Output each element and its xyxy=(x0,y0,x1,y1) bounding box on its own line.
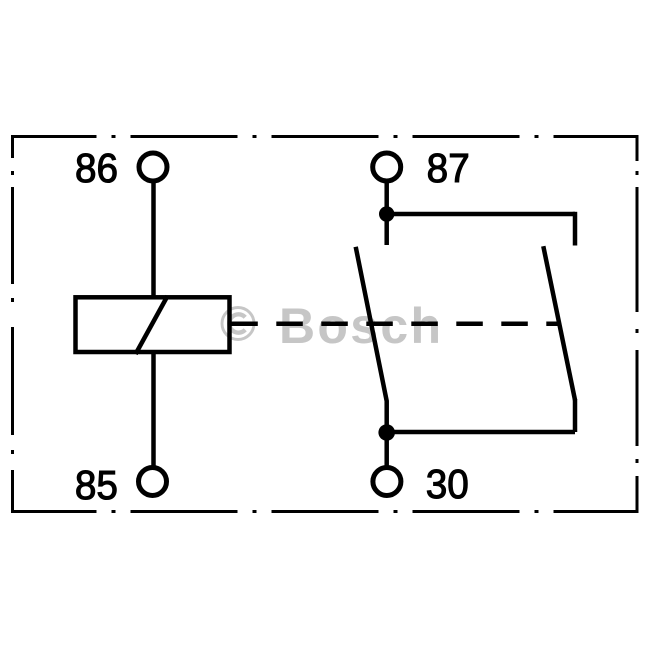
label 30 xyxy=(426,462,469,507)
label 85 xyxy=(75,463,118,508)
coil diagonal stroke xyxy=(136,296,168,354)
wire bottom horizontal to junction xyxy=(387,430,575,435)
svg-text:86: 86 xyxy=(75,146,118,191)
terminal 30 circle xyxy=(373,468,401,496)
frame border dash-dot top xyxy=(13,135,638,138)
wire stub below junction xyxy=(384,214,389,245)
switch blade left (movable contact) xyxy=(356,247,387,432)
wire junction to right top xyxy=(387,212,575,217)
watermark copyright symbol xyxy=(222,308,254,340)
svg-text:87: 87 xyxy=(427,146,470,191)
junction node top xyxy=(379,206,394,221)
svg-text:85: 85 xyxy=(75,463,118,508)
frame border dash-dot bottom xyxy=(13,510,638,513)
frame border dash-dot right xyxy=(636,135,639,513)
wire right top stub xyxy=(573,212,578,246)
switch blade right (fixed contact side) xyxy=(543,246,575,400)
wire right bottom vertical xyxy=(573,399,578,432)
label 86 xyxy=(75,146,118,191)
terminal 86 circle xyxy=(139,153,167,181)
dashed actuation line coil to switch xyxy=(231,321,559,326)
coil K1 rectangle xyxy=(76,297,230,352)
terminal 87 circle xyxy=(373,153,401,181)
wire junction to 30 xyxy=(384,432,389,467)
frame border dash-dot left xyxy=(11,135,14,513)
junction node bottom xyxy=(378,424,395,441)
wire 86 to coil xyxy=(151,182,156,298)
svg-text:Bosch: Bosch xyxy=(279,298,441,354)
svg-text:30: 30 xyxy=(426,462,469,507)
terminal 85 circle xyxy=(139,468,167,496)
wire coil to 85 xyxy=(151,351,156,467)
wire 87 to junction xyxy=(384,182,389,214)
label 87 xyxy=(427,146,470,191)
